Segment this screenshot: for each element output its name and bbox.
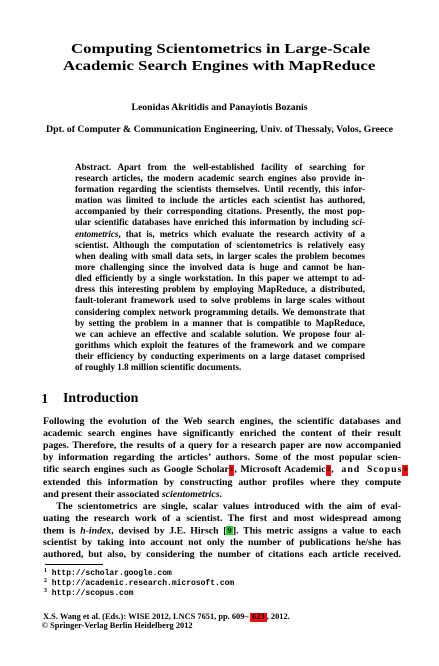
title line 2 [63,60,375,74]
section heading [41,392,48,406]
footer line 2 [42,622,193,630]
footnote rule [45,564,103,565]
title line 1 [71,43,370,57]
intro paragraph 2 [43,502,401,512]
abstract [75,163,365,172]
footnotes [44,568,172,578]
affiliation [0,125,439,135]
intro paragraph 1 [43,417,401,427]
authors [0,103,439,113]
footer line 1 [43,613,290,621]
